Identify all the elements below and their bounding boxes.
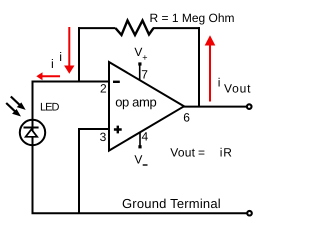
wire: pin 3 vertical to ground [78, 128, 80, 213]
wire: inverting node vertical up [78, 27, 80, 81]
op-amp minus sign [113, 81, 120, 83]
svg-text:=: = [198, 145, 205, 159]
pin 4 wire [139, 132, 141, 147]
svg-text:V: V [134, 45, 142, 59]
op-amp plus sign [114, 126, 122, 134]
op-amp U1 triangle [109, 62, 184, 151]
resistor R zigzag [116, 21, 154, 36]
pin 7 wire [139, 64, 141, 80]
pin 4 dot [138, 145, 141, 148]
svg-text:i: i [51, 57, 54, 71]
red current arrow down (left) [64, 27, 74, 74]
svg-text:2: 2 [100, 82, 107, 96]
output terminal Vout [247, 104, 252, 109]
svg-text:i: i [220, 145, 223, 159]
LED diode triangle [26, 129, 38, 137]
svg-text:6: 6 [183, 110, 190, 124]
svg-text:R = 1 Meg Ohm: R = 1 Meg Ohm [150, 11, 235, 25]
wire: top horizontal to resistor [78, 27, 116, 29]
red current arrow left [36, 72, 60, 80]
svg-text:+: + [142, 53, 147, 63]
svg-text:Vout: Vout [224, 82, 251, 96]
svg-text:Ground Terminal: Ground Terminal [122, 196, 221, 211]
wire: pin 3 horizontal [79, 128, 109, 130]
svg-text:R: R [223, 145, 232, 159]
LED cathode bar [24, 127, 39, 129]
wire: pin 2 horizontal [33, 81, 110, 83]
red current arrow up (right) [205, 35, 216, 101]
wire: resistor to right corner [153, 27, 200, 29]
light ray arrow 1 [11, 97, 25, 110]
wire: output horizontal [183, 106, 246, 108]
ground terminal circle [247, 211, 252, 216]
svg-text:i: i [218, 76, 221, 90]
svg-text:7: 7 [141, 68, 148, 82]
LED circle [20, 120, 45, 145]
pin 7 dot [138, 62, 141, 65]
wire: ground bottom horizontal [32, 212, 247, 214]
svg-text:Vout: Vout [170, 145, 195, 159]
svg-text:4: 4 [142, 130, 149, 144]
LED wire through circle [32, 120, 34, 147]
svg-text:op amp: op amp [115, 94, 156, 109]
wire: left vertical through LED down to ground [32, 81, 34, 214]
svg-text:LED: LED [40, 102, 59, 114]
wire: feedback vertical down to output [198, 27, 200, 107]
light ray arrow 2 [6, 103, 20, 116]
svg-text:V: V [134, 153, 142, 167]
svg-text:3: 3 [100, 130, 107, 144]
svg-text:i: i [59, 50, 62, 64]
